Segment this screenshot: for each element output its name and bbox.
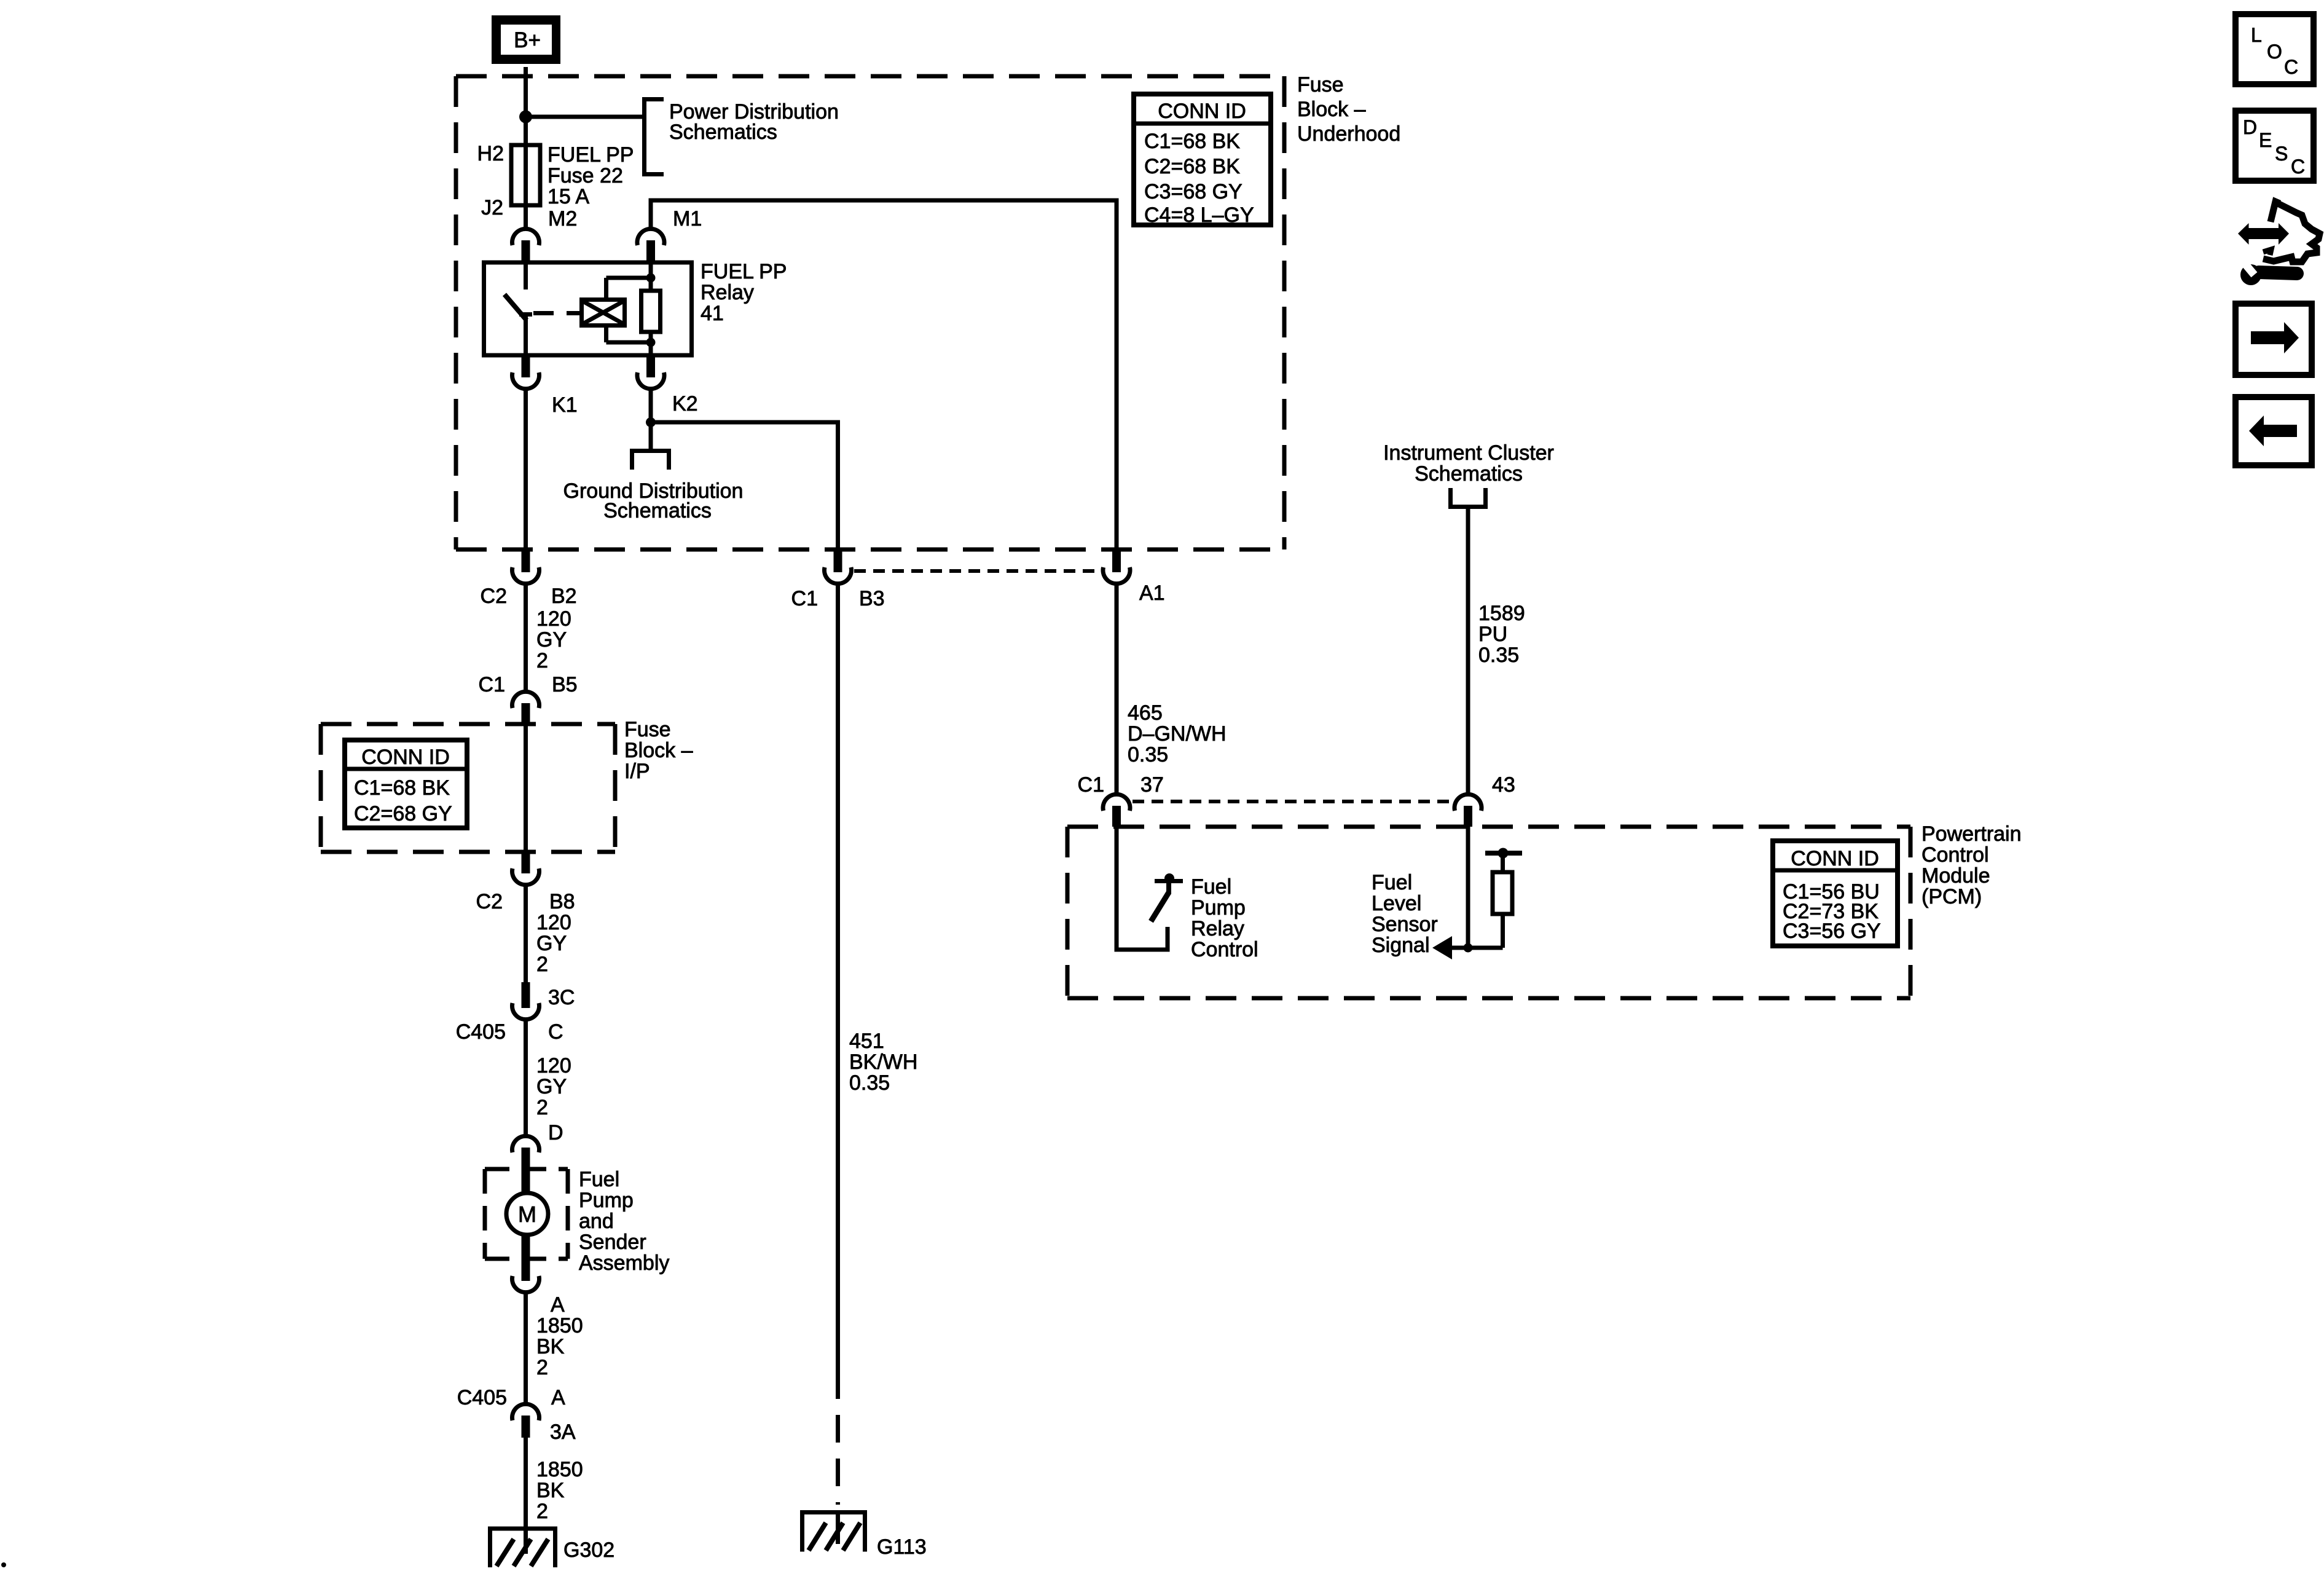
svg-text:BK/WH: BK/WH [849, 1050, 917, 1074]
svg-text:M1: M1 [673, 207, 702, 230]
svg-text:D: D [548, 1121, 563, 1144]
svg-text:GY: GY [536, 628, 567, 652]
svg-text:2: 2 [536, 953, 548, 976]
svg-text:G113: G113 [877, 1535, 927, 1559]
svg-text:C2: C2 [481, 585, 507, 608]
svg-text:Instrument Cluster: Instrument Cluster [1383, 441, 1554, 465]
svg-text:BK: BK [536, 1479, 565, 1502]
svg-text:451: 451 [849, 1030, 884, 1053]
svg-text:2: 2 [536, 1356, 548, 1379]
svg-text:C1: C1 [1078, 773, 1104, 797]
svg-text:Assembly: Assembly [579, 1251, 669, 1275]
svg-text:Module: Module [1922, 864, 1990, 888]
svg-text:C1=68 BK: C1=68 BK [354, 776, 450, 800]
svg-text:G302: G302 [563, 1538, 614, 1562]
svg-text:E: E [2259, 129, 2272, 151]
svg-text:41: 41 [701, 302, 724, 325]
svg-text:465: 465 [1128, 701, 1163, 725]
svg-text:Signal: Signal [1372, 934, 1430, 957]
svg-text:15 A: 15 A [548, 185, 589, 208]
svg-text:Schematics: Schematics [669, 120, 777, 144]
svg-text:C: C [2284, 56, 2298, 78]
svg-text:C405: C405 [456, 1020, 506, 1044]
svg-text:B5: B5 [552, 673, 578, 696]
svg-text:3C: 3C [548, 986, 575, 1009]
svg-text:C1: C1 [791, 587, 818, 610]
svg-text:FUEL PP: FUEL PP [701, 260, 787, 283]
svg-text:Fuel: Fuel [1372, 871, 1412, 894]
svg-text:Block –: Block – [624, 739, 693, 762]
svg-text:BK: BK [536, 1335, 565, 1358]
svg-text:CONN ID: CONN ID [361, 746, 450, 769]
svg-text:1850: 1850 [536, 1314, 583, 1337]
svg-text:D: D [2243, 116, 2257, 138]
svg-text:M2: M2 [548, 207, 577, 230]
svg-text:Pump: Pump [579, 1189, 634, 1212]
svg-text:Control: Control [1191, 938, 1258, 961]
svg-text:Underhood: Underhood [1297, 122, 1400, 146]
svg-text:Pump: Pump [1191, 896, 1246, 919]
svg-text:PU: PU [1478, 623, 1507, 646]
svg-text:0.35: 0.35 [849, 1071, 890, 1095]
svg-text:43: 43 [1492, 773, 1515, 797]
svg-text:Schematics: Schematics [1415, 462, 1523, 486]
svg-text:C3=56 GY: C3=56 GY [1783, 919, 1881, 943]
svg-text:0.35: 0.35 [1128, 743, 1168, 766]
svg-text:A: A [551, 1386, 565, 1409]
svg-text:C3=68 GY: C3=68 GY [1144, 180, 1242, 203]
svg-text:L: L [2251, 24, 2262, 46]
svg-text:C4=8 L–GY: C4=8 L–GY [1144, 203, 1254, 227]
svg-text:C405: C405 [457, 1386, 507, 1409]
svg-text:CONN ID: CONN ID [1791, 847, 1879, 870]
svg-text:Relay: Relay [1191, 917, 1244, 940]
svg-text:B+: B+ [514, 28, 541, 52]
svg-text:B8: B8 [549, 890, 575, 913]
svg-text:Powertrain: Powertrain [1922, 822, 2022, 846]
svg-text:D–GN/WH: D–GN/WH [1128, 722, 1227, 746]
svg-text:Fuse: Fuse [624, 718, 671, 741]
svg-text:Control: Control [1922, 843, 1989, 867]
svg-text:Sensor: Sensor [1372, 913, 1438, 936]
svg-text:120: 120 [536, 1054, 571, 1077]
svg-text:Fuel: Fuel [1191, 875, 1231, 899]
svg-text:K2: K2 [672, 392, 698, 415]
svg-text:GY: GY [536, 932, 567, 955]
svg-text:120: 120 [536, 607, 571, 631]
svg-text:120: 120 [536, 911, 571, 934]
svg-text:C2: C2 [476, 890, 503, 913]
svg-text:37: 37 [1140, 773, 1164, 797]
svg-text:C2=68 GY: C2=68 GY [354, 802, 452, 825]
svg-text:B2: B2 [551, 585, 577, 608]
svg-text:GY: GY [536, 1075, 567, 1098]
svg-text:Level: Level [1372, 892, 1421, 915]
svg-text:Block –: Block – [1297, 98, 1366, 121]
svg-text:Sender: Sender [579, 1231, 646, 1254]
svg-text:0.35: 0.35 [1478, 644, 1519, 667]
svg-text:and: and [579, 1210, 614, 1233]
svg-text:C: C [2291, 156, 2305, 178]
svg-text:FUEL PP: FUEL PP [548, 143, 634, 167]
svg-text:C2=68 BK: C2=68 BK [1144, 155, 1240, 178]
svg-text:C1: C1 [479, 673, 505, 696]
svg-text:Relay: Relay [701, 281, 754, 304]
svg-text:J2: J2 [481, 196, 503, 219]
svg-text:B3: B3 [859, 587, 885, 610]
svg-text:O: O [2267, 41, 2282, 63]
svg-text:C1=68 BK: C1=68 BK [1144, 130, 1240, 153]
svg-text:A: A [551, 1293, 565, 1317]
svg-text:2: 2 [536, 1096, 548, 1119]
svg-text:1589: 1589 [1478, 602, 1525, 625]
svg-text:I/P: I/P [624, 760, 650, 783]
svg-text:M: M [518, 1202, 536, 1227]
svg-text:Schematics: Schematics [603, 499, 712, 522]
svg-text:S: S [2275, 143, 2288, 165]
svg-text:2: 2 [536, 1500, 548, 1523]
svg-text:1850: 1850 [536, 1458, 583, 1481]
svg-text:Fuel: Fuel [579, 1168, 619, 1191]
svg-text:Fuse 22: Fuse 22 [548, 164, 623, 187]
svg-text:H2: H2 [477, 142, 504, 165]
svg-text:C: C [548, 1020, 563, 1044]
svg-text:K1: K1 [552, 393, 578, 417]
svg-text:A1: A1 [1139, 581, 1165, 605]
svg-text:(PCM): (PCM) [1922, 885, 1982, 908]
svg-text:3A: 3A [550, 1420, 576, 1444]
svg-text:Fuse: Fuse [1297, 73, 1344, 96]
svg-text:CONN ID: CONN ID [1158, 100, 1246, 123]
svg-text:2: 2 [536, 649, 548, 672]
